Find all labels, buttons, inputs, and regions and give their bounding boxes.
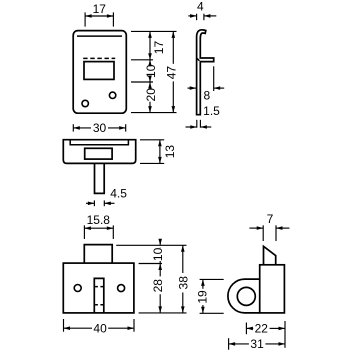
bottom front view left screw hole	[74, 285, 81, 292]
svg-text:30: 30	[93, 121, 107, 135]
bottom front view right screw hole	[118, 285, 125, 292]
dimension 19 (lobe height)	[196, 279, 224, 313]
dimension 22 (hole centre to back)	[246, 321, 285, 348]
bottom front view slot	[94, 278, 104, 313]
bottom front view tongue	[84, 245, 112, 264]
svg-text:4.5: 4.5	[110, 187, 127, 201]
front view right mounting hole	[109, 92, 115, 98]
dimension 4 (curl width)	[188, 0, 216, 20]
front view plate fold line	[77, 35, 122, 37]
dimension 15.8 (tongue width)	[84, 213, 113, 239]
svg-text:10: 10	[151, 247, 165, 261]
front view plate body	[73, 31, 126, 114]
front view left mounting hole	[82, 100, 88, 106]
dimension 8 (tab reach)	[188, 66, 225, 102]
front view window opening	[84, 62, 114, 80]
top view bolt opening	[85, 148, 112, 159]
svg-text:47: 47	[165, 66, 179, 80]
side profile strip with curled top and tab	[197, 30, 214, 115]
dimension 1.5 (strip thickness)	[186, 104, 221, 129]
bottom front view lock case body	[63, 263, 134, 313]
svg-text:17: 17	[93, 2, 107, 16]
svg-text:38: 38	[177, 276, 191, 290]
slot break line lower	[95, 304, 103, 306]
bracket side view hole	[237, 287, 255, 305]
slot break line upper	[95, 286, 103, 288]
bracket side view lobe	[228, 279, 260, 313]
dimension 13 (case depth)	[140, 140, 177, 164]
svg-text:7: 7	[267, 212, 274, 226]
dimension 31 (overall depth)	[229, 337, 285, 350]
dimension chain 17/10/20 and 47 (right of front view)	[131, 31, 179, 112]
bracket side view body	[260, 265, 285, 313]
top view front lip	[70, 140, 128, 145]
svg-text:28: 28	[151, 279, 165, 293]
svg-text:8: 8	[204, 89, 211, 103]
dimension 40 (case width)	[64, 319, 135, 336]
dimension 4.5 (stem width)	[86, 187, 127, 207]
svg-text:10: 10	[144, 64, 158, 78]
svg-text:22: 22	[255, 322, 269, 336]
top view latch case	[63, 140, 135, 164]
svg-text:17: 17	[152, 41, 166, 55]
svg-text:20: 20	[144, 88, 158, 102]
svg-text:4: 4	[197, 0, 204, 14]
bracket side view wedge hook	[264, 246, 276, 264]
side profile crimp mark	[196, 58, 199, 61]
svg-text:1.5: 1.5	[203, 104, 220, 118]
svg-text:31: 31	[250, 337, 264, 350]
dimension 30 (plate width)	[73, 121, 125, 135]
svg-text:15.8: 15.8	[87, 213, 111, 227]
dimension chain 10/28 and 38 (right of bottom front view)	[116, 239, 190, 313]
svg-text:40: 40	[93, 322, 107, 336]
dimension 7 (wedge width)	[249, 212, 289, 241]
top view bolt stem	[95, 163, 105, 193]
svg-text:19: 19	[196, 290, 210, 304]
svg-text:13: 13	[163, 145, 177, 159]
dimension 17 (window width)	[85, 2, 113, 26]
front view window hidden edge (dashed)	[83, 57, 115, 59]
